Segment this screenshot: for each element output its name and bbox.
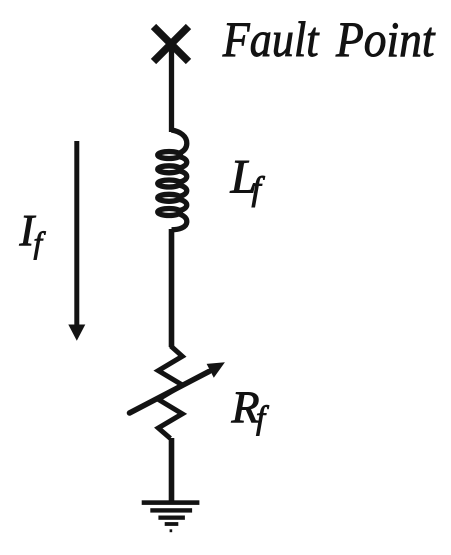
svg-text:Fault: Fault: [222, 11, 320, 67]
loop 1: [158, 152, 181, 159]
right helix arcs: [180, 157, 187, 168]
entry hook (top): [172, 130, 187, 153]
exit hook (bottom): [172, 214, 187, 230]
variable resistor R_f (zigzag): [158, 346, 182, 438]
ground: [142, 500, 200, 532]
wire: inductor to resistor: [169, 229, 175, 347]
arrow through resistor: [130, 372, 210, 414]
wire: resistor to ground: [169, 438, 175, 502]
loop 5: [158, 209, 181, 216]
loop 2: [158, 166, 181, 173]
loop 3: [158, 180, 181, 187]
fault point X: [154, 27, 189, 62]
wire: fault point to inductor: [169, 44, 174, 132]
current arrow I_f: [68, 141, 85, 341]
svg-text:Point: Point: [335, 11, 435, 67]
loop 4: [158, 194, 181, 201]
inductor L_f: [158, 130, 187, 230]
